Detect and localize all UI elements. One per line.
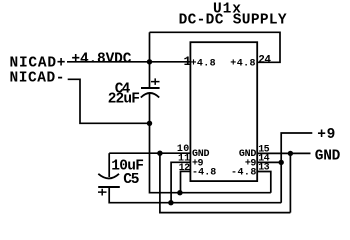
capacitor C5 plus sign xyxy=(98,189,107,196)
IC U1 box xyxy=(190,42,257,181)
svg-text:NICAD+: NICAD+ xyxy=(10,56,66,72)
wire C5 hanger xyxy=(108,153,110,177)
svg-text:22uF: 22uF xyxy=(108,92,140,108)
junction dot pin 14 node xyxy=(279,160,284,165)
wire C5 top to pin 10 GND xyxy=(109,152,190,154)
svg-text:+9: +9 xyxy=(317,127,335,143)
svg-text:+4.8: +4.8 xyxy=(191,59,216,70)
junction dot pin 12 on -4.8 bus xyxy=(177,190,182,195)
wire C4 bottom to NICAD- node xyxy=(149,93,151,123)
capacitor C4 straight plate xyxy=(141,87,160,89)
wire top route to pin 24 xyxy=(150,32,281,62)
wire NICAD- stub xyxy=(68,79,150,123)
wire NICAD+ to pin 1 xyxy=(67,61,190,63)
wire pin 11 stub and drop to +9 bus xyxy=(171,162,190,202)
junction dot pin 11 on +9 bus xyxy=(168,200,173,205)
svg-text:+4.8VDC: +4.8VDC xyxy=(71,52,131,68)
wire GND drop to GND bus xyxy=(160,153,291,212)
wire riser junction to top route xyxy=(149,32,151,62)
capacitor C5 curved plate xyxy=(98,174,119,179)
capacitor C5 straight plate xyxy=(98,186,120,188)
wire junction down to C4 xyxy=(149,62,151,89)
wire C5 bottom to +9 bus xyxy=(109,187,281,202)
junction dot GND label drop xyxy=(288,151,293,156)
svg-text:24: 24 xyxy=(258,54,271,66)
wire pin 14 stub xyxy=(257,161,281,163)
capacitor C4 curved plate xyxy=(141,93,159,98)
svg-text:GND: GND xyxy=(315,148,341,164)
svg-text:-4.8: -4.8 xyxy=(192,167,216,178)
wire +9 label riser xyxy=(281,133,312,203)
wire NICAD- node down to -4.8 bus xyxy=(150,123,271,192)
junction dot NICAD- node xyxy=(147,121,152,126)
wire pin 12 stub and drop to -4.8 bus xyxy=(181,171,191,192)
wire pin 13 stub and drop to -4.8 bus xyxy=(257,172,271,193)
junction dot GND drop xyxy=(157,151,162,156)
wire GND label drop to GND bus xyxy=(289,153,291,212)
wire pin 15 to GND label xyxy=(257,152,310,154)
junction dot +4.8 node xyxy=(147,59,152,64)
svg-text:NICAD-: NICAD- xyxy=(10,71,65,87)
svg-text:-4.8: -4.8 xyxy=(231,168,256,179)
svg-text:+4.8: +4.8 xyxy=(230,59,255,70)
svg-text:DC-DC SUPPLY: DC-DC SUPPLY xyxy=(179,13,287,29)
svg-text:C5: C5 xyxy=(123,172,139,188)
capacitor C4 plus sign xyxy=(151,78,160,85)
